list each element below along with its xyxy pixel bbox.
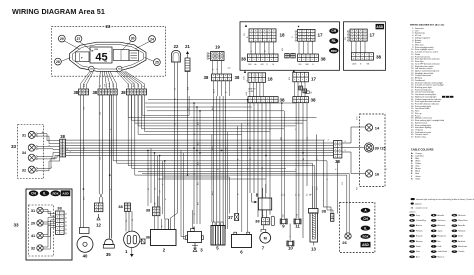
svg-text:variants circuit: variants circuit bbox=[416, 207, 428, 210]
svg-text:38: 38 bbox=[280, 98, 286, 103]
svg-text:G5: G5 bbox=[155, 188, 157, 190]
svg-text:IL: IL bbox=[43, 192, 46, 196]
svg-text:RDX: RDX bbox=[331, 49, 337, 53]
svg-text:Rs: Rs bbox=[453, 220, 455, 222]
svg-text:17: 17 bbox=[311, 77, 317, 82]
svg-text:Az: Az bbox=[41, 131, 44, 133]
svg-text:Arancilla: Arancilla bbox=[458, 224, 465, 227]
svg-text:31: 31 bbox=[22, 133, 26, 137]
svg-text:CABLE COLOURS: CABLE COLOURS bbox=[411, 148, 434, 152]
svg-text:Ar: Ar bbox=[411, 152, 413, 155]
svg-text:colours:: colours: bbox=[409, 210, 416, 213]
svg-text:Blau/rue: Blau/rue bbox=[438, 256, 445, 258]
svg-text:20: 20 bbox=[31, 221, 35, 226]
svg-text:G5: G5 bbox=[310, 194, 312, 196]
svg-text:26: 26 bbox=[342, 240, 347, 245]
svg-text:Vb: Vb bbox=[453, 225, 455, 227]
svg-text:25: 25 bbox=[155, 60, 159, 64]
svg-text:ASD: ASD bbox=[362, 243, 369, 247]
svg-text:G5: G5 bbox=[126, 220, 128, 222]
svg-text:38: 38 bbox=[376, 55, 382, 60]
svg-text:38: 38 bbox=[335, 159, 340, 164]
svg-text:Starter relay: Starter relay bbox=[415, 136, 426, 139]
svg-text:Junik/Verde: Junik/Verde bbox=[438, 251, 447, 253]
svg-text:13: 13 bbox=[311, 247, 316, 252]
svg-text:33: 33 bbox=[11, 144, 17, 149]
svg-text:29: 29 bbox=[60, 37, 64, 41]
svg-text:39 /15: 39 /15 bbox=[374, 146, 386, 151]
svg-text:38: 38 bbox=[60, 134, 65, 139]
svg-text:40: 40 bbox=[83, 254, 88, 259]
svg-text:Az/R: Az/R bbox=[132, 82, 135, 87]
svg-text:Az: Az bbox=[411, 154, 413, 157]
svg-text:G5: G5 bbox=[296, 194, 298, 196]
svg-text:Celeste/Reg.: Celeste/Reg. bbox=[416, 219, 427, 222]
svg-text:22: 22 bbox=[174, 44, 179, 49]
svg-text:G5: G5 bbox=[299, 194, 301, 196]
svg-text:CH: CH bbox=[331, 29, 336, 33]
svg-text:Violet: Violet bbox=[415, 177, 420, 180]
svg-text:RL: RL bbox=[332, 39, 336, 43]
svg-text:Ve: Ve bbox=[433, 256, 435, 258]
svg-text:RDX: RDX bbox=[52, 192, 58, 196]
svg-text:Arancio: Arancio bbox=[416, 224, 422, 227]
svg-text:Na: Na bbox=[453, 215, 455, 217]
svg-text:Keltainen: Keltainen bbox=[458, 229, 466, 232]
svg-text:WIRING DIAGRAM KEY (Area 51): WIRING DIAGRAM KEY (Area 51) bbox=[410, 24, 445, 27]
svg-text:11: 11 bbox=[295, 223, 300, 228]
svg-text:G5: G5 bbox=[281, 194, 283, 196]
svg-text:47.: 47. bbox=[411, 137, 414, 139]
svg-text:Az/R: Az/R bbox=[212, 88, 215, 93]
svg-text:G5: G5 bbox=[284, 194, 286, 196]
svg-text:ASD: ASD bbox=[376, 25, 383, 29]
svg-text:Gelb: Gelb bbox=[438, 246, 442, 248]
svg-text:38: 38 bbox=[146, 208, 151, 213]
svg-text:B5: B5 bbox=[148, 188, 150, 190]
svg-text:38: 38 bbox=[255, 219, 260, 224]
svg-text:Bian/brown: Bian/brown bbox=[458, 246, 467, 248]
svg-text:RDX: RDX bbox=[363, 235, 369, 239]
svg-text:Cinzato: Cinzato bbox=[458, 250, 464, 253]
svg-text:37: 37 bbox=[228, 215, 233, 220]
svg-text:36: 36 bbox=[146, 235, 151, 240]
svg-text:12: 12 bbox=[96, 223, 101, 228]
svg-text:G5: G5 bbox=[307, 194, 309, 196]
svg-text:CH: CH bbox=[363, 217, 368, 221]
svg-text:19: 19 bbox=[215, 45, 220, 50]
svg-text:Az/N: Az/N bbox=[108, 82, 111, 87]
svg-text:Noir: Noir bbox=[438, 241, 442, 243]
svg-text:32: 32 bbox=[22, 168, 26, 172]
svg-text:Gr: Gr bbox=[99, 85, 102, 87]
svg-text:38: 38 bbox=[311, 98, 317, 103]
svg-text:optional: optional bbox=[415, 203, 422, 206]
svg-text:28: 28 bbox=[56, 60, 60, 64]
svg-text:WIRING DIAGRAM Area 51: WIRING DIAGRAM Area 51 bbox=[12, 7, 105, 16]
svg-text:Az: Az bbox=[302, 158, 305, 160]
svg-text:33: 33 bbox=[13, 223, 19, 228]
svg-text:Verde: Verde bbox=[416, 246, 421, 248]
svg-text:Rungainen: Rungainen bbox=[438, 236, 447, 238]
svg-text:38: 38 bbox=[235, 75, 240, 80]
svg-text:10: 10 bbox=[288, 245, 293, 250]
svg-text:Amarillo: Amarillo bbox=[438, 214, 445, 217]
svg-text:17: 17 bbox=[370, 33, 376, 38]
svg-text:▶: ▶ bbox=[92, 50, 94, 53]
svg-text:18: 18 bbox=[268, 77, 274, 82]
svg-text:Light blue: Light blue bbox=[415, 154, 425, 157]
svg-text:38: 38 bbox=[321, 57, 327, 62]
svg-text:24: 24 bbox=[150, 37, 154, 41]
svg-text:Azult/silv.: Azult/silv. bbox=[458, 240, 466, 243]
svg-text:ASD: ASD bbox=[62, 192, 69, 196]
svg-text:30: 30 bbox=[131, 36, 135, 40]
svg-text:M: M bbox=[264, 237, 267, 241]
svg-text:38: 38 bbox=[241, 57, 247, 62]
svg-text:38: 38 bbox=[322, 209, 327, 214]
svg-text:38: 38 bbox=[204, 75, 209, 80]
svg-text:CH: CH bbox=[31, 192, 36, 196]
svg-text:Petroleo: Petroleo bbox=[416, 229, 423, 232]
svg-text:38: 38 bbox=[121, 90, 126, 95]
svg-text:38: 38 bbox=[73, 90, 78, 95]
svg-text:IL: IL bbox=[364, 226, 367, 230]
svg-text:16: 16 bbox=[375, 172, 380, 177]
svg-text:Marrone: Marrone bbox=[416, 241, 423, 243]
svg-text:White: White bbox=[415, 159, 421, 162]
svg-text:B5: B5 bbox=[132, 219, 134, 221]
svg-text:27: 27 bbox=[77, 37, 81, 41]
svg-text:38: 38 bbox=[118, 204, 123, 209]
svg-text:Grey: Grey bbox=[416, 215, 420, 217]
svg-text:Rosazto: Rosazto bbox=[416, 235, 423, 238]
svg-text:35: 35 bbox=[106, 252, 111, 257]
svg-text:21: 21 bbox=[185, 44, 190, 49]
svg-text:18: 18 bbox=[280, 33, 286, 38]
svg-text:Wiess/Grun: Wiess/Grun bbox=[458, 220, 467, 222]
svg-text:38: 38 bbox=[57, 206, 62, 211]
svg-text:Blu/acute: Blu/acute bbox=[458, 214, 466, 217]
svg-text:Japon: Japon bbox=[438, 230, 443, 232]
svg-text:23: 23 bbox=[106, 24, 111, 29]
svg-text:Rz: Rz bbox=[453, 246, 455, 248]
svg-text:38: 38 bbox=[92, 90, 97, 95]
svg-text:Vert/carm.: Vert/carm. bbox=[438, 219, 447, 222]
svg-text:Viola: Viola bbox=[416, 251, 420, 253]
svg-text:Gr: Gr bbox=[173, 88, 176, 90]
svg-text:14: 14 bbox=[375, 126, 380, 131]
svg-text:Brade: Brade bbox=[458, 236, 463, 238]
svg-text:Az: Az bbox=[264, 50, 267, 52]
svg-text:Azul: Azul bbox=[416, 255, 420, 258]
svg-text:Az: Az bbox=[255, 63, 257, 66]
svg-text:Gr B/R: Gr B/R bbox=[249, 90, 255, 93]
svg-text:17: 17 bbox=[318, 33, 324, 38]
svg-text:Blertrand: Blertrand bbox=[438, 224, 445, 227]
svg-text:alternate light switching-on-i: alternate light switching-on-in-a-state-… bbox=[416, 198, 474, 201]
